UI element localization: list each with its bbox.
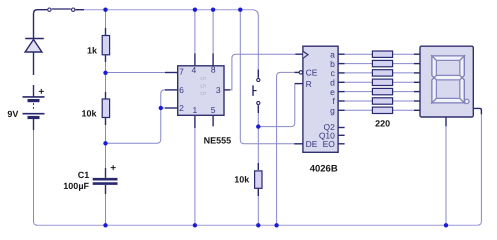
svg-text:3: 3	[216, 85, 221, 95]
svg-text:10k: 10k	[81, 109, 97, 119]
svg-text:5: 5	[211, 105, 216, 115]
svg-text:DE: DE	[306, 139, 318, 149]
svg-text:10k: 10k	[234, 175, 250, 185]
svg-text:NE555: NE555	[204, 136, 232, 146]
svg-text:1: 1	[193, 105, 198, 115]
svg-text:EO: EO	[323, 139, 336, 149]
svg-text:9V: 9V	[7, 109, 18, 119]
svg-text:4: 4	[192, 65, 197, 75]
svg-text:CE: CE	[306, 68, 318, 78]
svg-text:C1: C1	[78, 170, 90, 180]
svg-text:5: 5	[198, 91, 207, 95]
svg-text:5: 5	[198, 76, 207, 80]
svg-text:g: g	[330, 106, 335, 116]
svg-text:8: 8	[211, 65, 216, 75]
svg-text:1k: 1k	[87, 46, 98, 56]
svg-text:7: 7	[179, 67, 184, 77]
svg-text:4026B: 4026B	[310, 163, 338, 174]
svg-text:6: 6	[179, 85, 184, 95]
svg-text:R: R	[306, 79, 312, 89]
svg-text:220: 220	[375, 118, 390, 128]
svg-text:100µF: 100µF	[63, 181, 89, 191]
svg-text:5: 5	[198, 84, 207, 88]
svg-text:2: 2	[179, 103, 184, 113]
